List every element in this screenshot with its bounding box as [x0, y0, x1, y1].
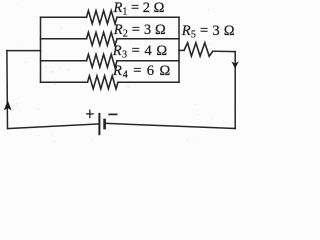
wire: branch 4 right segment — [118, 81, 179, 83]
resistor R1 — [87, 11, 118, 24]
wire: branch 1 left segment — [41, 16, 87, 18]
wire: R5 branch entry from right bus — [179, 49, 184, 51]
resistor R4 — [88, 76, 119, 89]
wire: branch 3 right segment — [117, 60, 179, 62]
wire: right vertical down to bottom — [234, 52, 236, 129]
wire: branch 2 right segment — [117, 38, 179, 40]
svg-text:R1 = 2 Ω: R1 = 2 Ω — [113, 0, 165, 18]
wire: R5 branch exit to right edge — [213, 50, 235, 52]
svg-text:R4 = 6 Ω: R4 = 6 Ω — [112, 63, 171, 81]
svg-text:R3 = 4 Ω: R3 = 4 Ω — [112, 43, 168, 61]
current arrow down (right wire) — [231, 61, 238, 68]
wire: branch 1 right segment — [117, 16, 179, 18]
battery long plate (+) — [98, 113, 100, 135]
battery + sign — [86, 110, 94, 119]
wire: left bus of parallel ladder — [40, 17, 42, 82]
wire: bottom right segment to battery — [105, 123, 236, 128]
battery short plate (-) — [103, 119, 106, 130]
wire: stub from left vertical to left bus — [7, 50, 41, 52]
battery - sign — [108, 113, 117, 115]
resistor R2 — [87, 32, 118, 45]
wire: left vertical up — [6, 51, 9, 129]
wire: right bus of parallel ladder — [178, 17, 180, 82]
svg-text:R5 = 3 Ω: R5 = 3 Ω — [181, 23, 235, 41]
wire: branch 4 left segment — [41, 81, 88, 83]
wire: branch 3 left segment — [41, 60, 87, 62]
resistor R3 — [87, 54, 118, 67]
wire: bottom left segment from battery — [8, 124, 100, 129]
current arrow up (left wire) — [4, 100, 12, 110]
resistor R5 — [184, 43, 213, 56]
wire: branch 2 left segment — [41, 38, 87, 40]
svg-text:R2 = 3 Ω: R2 = 3 Ω — [113, 22, 166, 40]
